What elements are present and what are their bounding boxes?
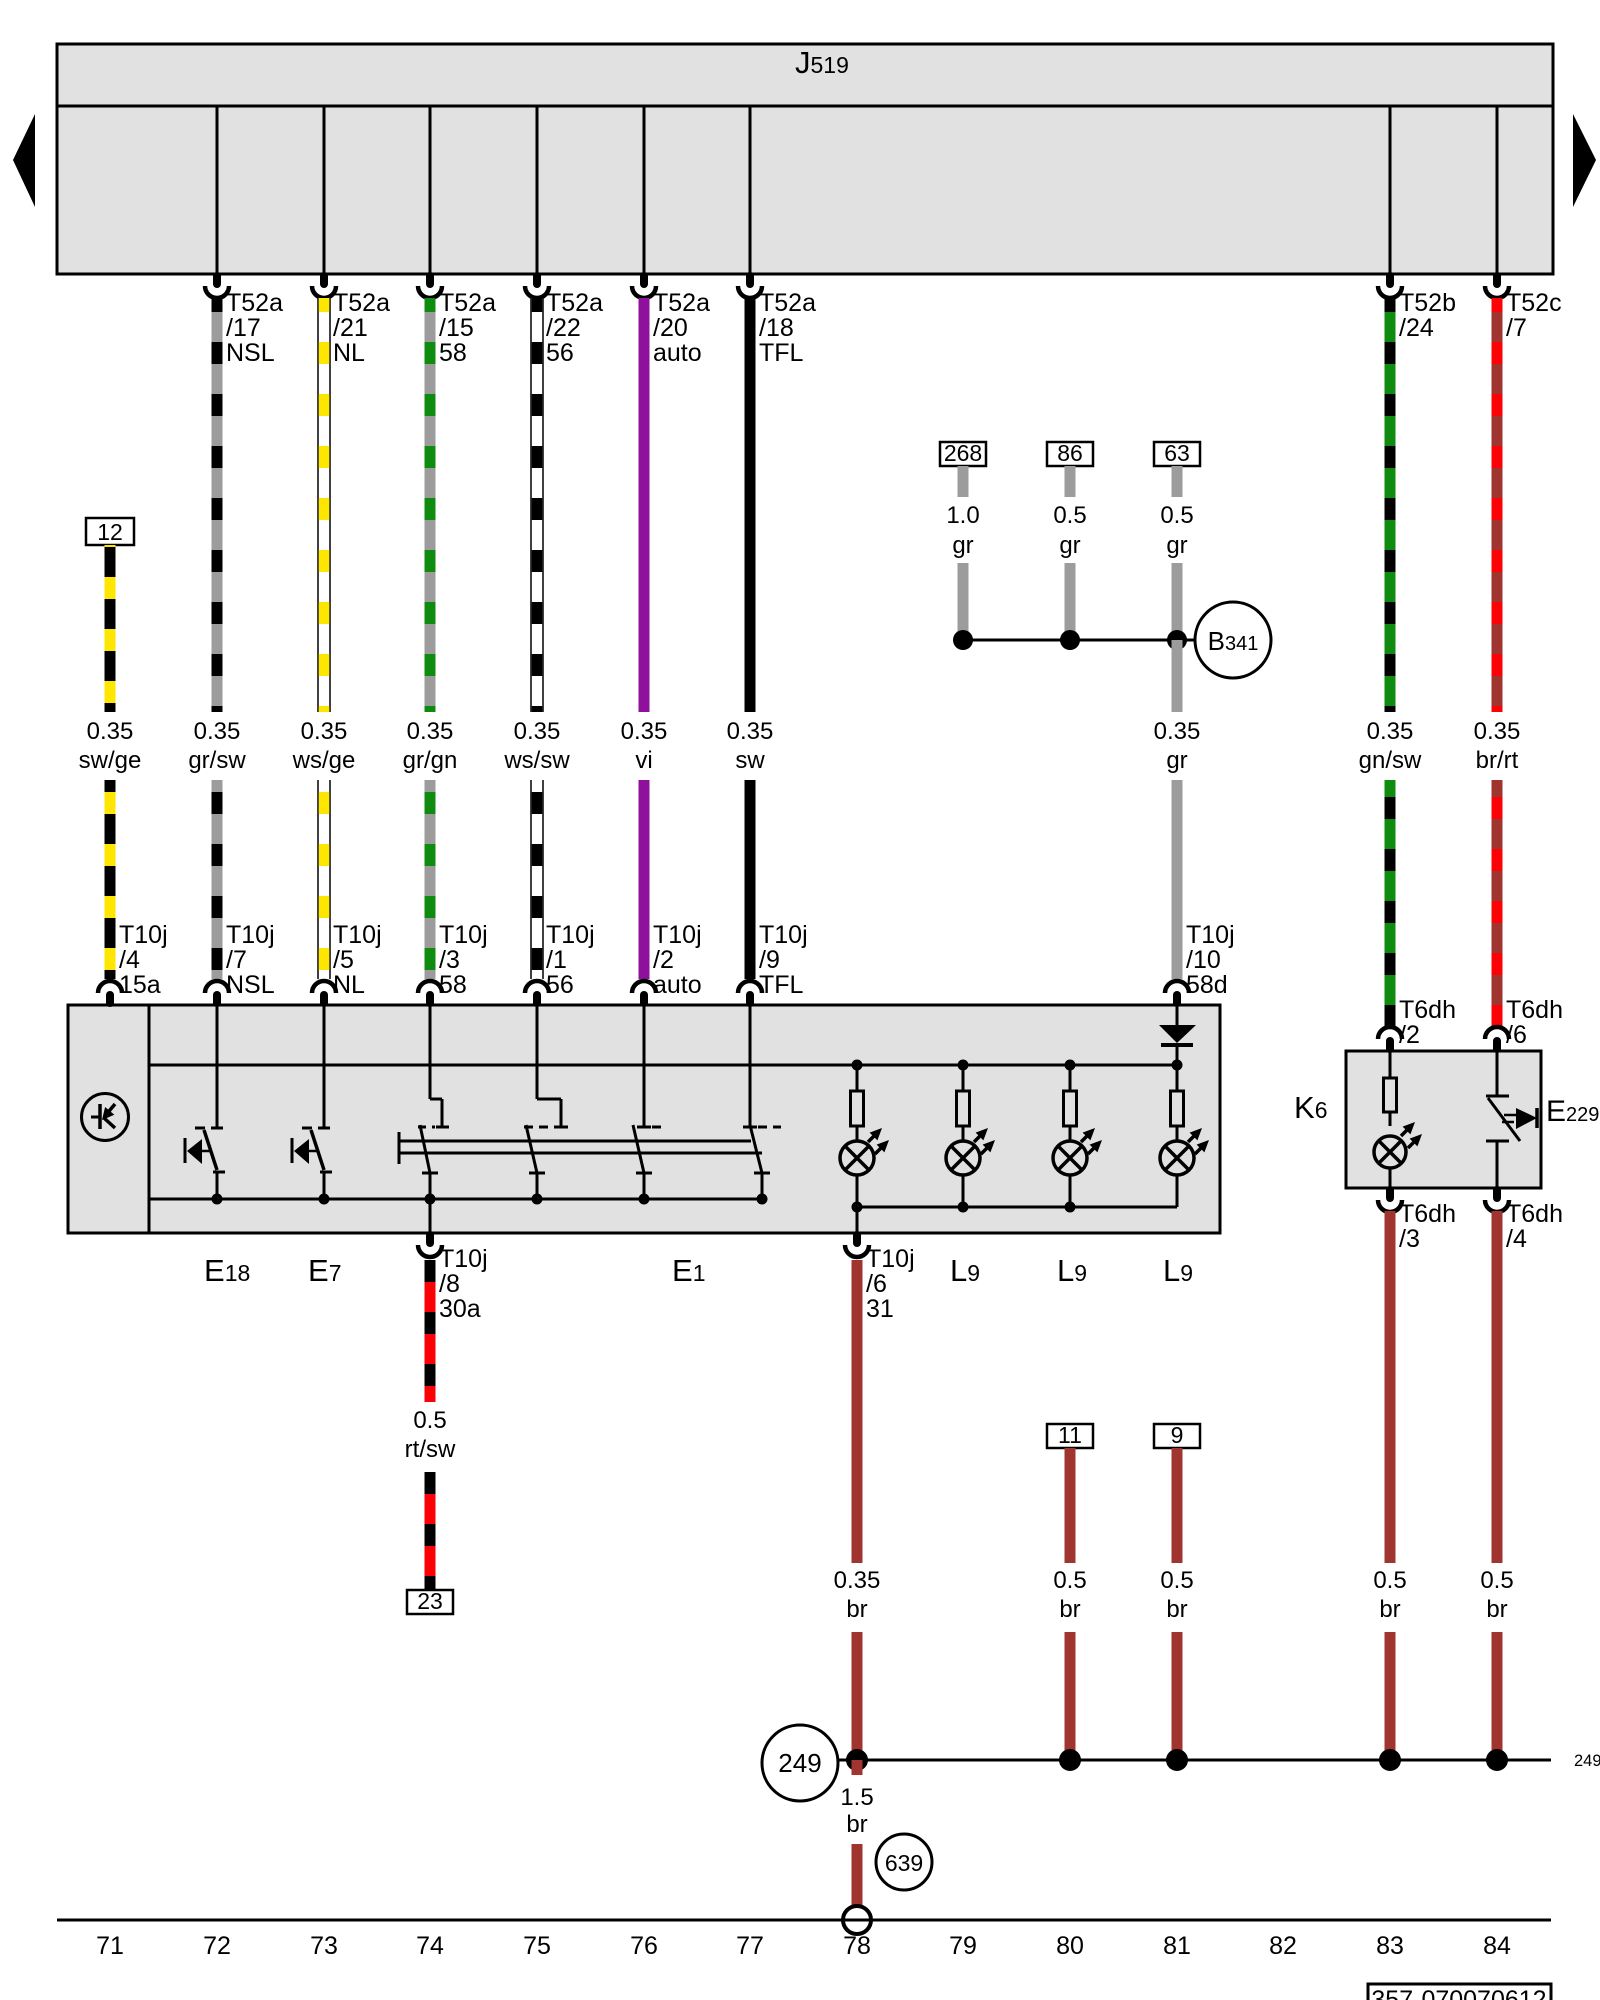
svg-text:gr/gn: gr/gn — [403, 747, 458, 774]
wire label 0.5 br track 80 — [1053, 1567, 1086, 1623]
wire br segment to ground node track 81 — [1172, 1632, 1183, 1760]
wire br segment to ground node track 80 — [1065, 1632, 1076, 1760]
terminal box 11 — [1047, 1422, 1093, 1448]
svg-text:1.0: 1.0 — [946, 502, 979, 529]
svg-text:30a: 30a — [439, 1295, 481, 1323]
connector pin T6dh/6 — [1485, 1027, 1509, 1049]
svg-text:81: 81 — [1163, 1932, 1191, 1960]
wire ws/ge upper segment track 73 — [317, 298, 331, 712]
wire br segment to ground node track 84 — [1492, 1632, 1503, 1760]
ground wire callout 639 — [876, 1834, 932, 1890]
svg-text:0.5: 0.5 — [1053, 502, 1086, 529]
svg-text:72: 72 — [203, 1932, 231, 1960]
svg-text:br: br — [1379, 1596, 1400, 1623]
label L9 — [1163, 1253, 1193, 1288]
wire label 0.35 sw track 77 — [727, 718, 774, 774]
svg-text:0.35: 0.35 — [834, 1567, 881, 1594]
track number 80 — [1056, 1932, 1084, 1960]
junction on ground line — [1379, 1749, 1401, 1771]
wire label 0.35 ws/sw track 75 — [503, 718, 570, 774]
svg-text:79: 79 — [949, 1932, 977, 1960]
svg-text:T6dh: T6dh — [1399, 1200, 1456, 1228]
terminal box 63 — [1154, 440, 1200, 466]
pin label T10j /6 31 — [866, 1245, 915, 1323]
junction diode to bus — [1172, 1060, 1183, 1071]
svg-text:63: 63 — [1164, 440, 1190, 466]
svg-text:T10j: T10j — [546, 921, 595, 949]
control unit J519 box — [57, 44, 1553, 274]
lamp L9 2 — [946, 1128, 995, 1175]
svg-text:/17: /17 — [226, 314, 261, 342]
svg-text:31: 31 — [866, 1295, 894, 1323]
J519 internal pin lead track 77 — [749, 106, 752, 274]
junction on common bus — [639, 1194, 650, 1205]
continuation arrow right — [1573, 114, 1596, 207]
J519 internal pin lead track 83 — [1389, 106, 1392, 274]
svg-text:23: 23 — [417, 1588, 443, 1614]
label J519 — [795, 45, 849, 80]
svg-text:/9: /9 — [759, 946, 780, 974]
track number 81 — [1163, 1932, 1191, 1960]
pin label T10j /3 58 — [439, 921, 488, 999]
wire br segment below K6 track 84 — [1492, 1211, 1503, 1563]
svg-text:58: 58 — [439, 339, 467, 367]
wire vi lower segment track 76 — [639, 780, 650, 979]
lamp lead — [1069, 1175, 1072, 1207]
pin label T52a /17 — [226, 289, 283, 367]
svg-text:/6: /6 — [866, 1270, 887, 1298]
junction on lamp bus — [852, 1202, 863, 1213]
svg-text:58d: 58d — [1186, 971, 1228, 999]
svg-text:0.35: 0.35 — [621, 718, 668, 745]
pin label T6dh /6 — [1506, 996, 1563, 1049]
wire gr/gn upper segment track 74 — [425, 298, 436, 712]
terminal box 268 — [940, 440, 986, 466]
K6 lamp branch — [1384, 1051, 1397, 1126]
wire br segment below T10j/6 — [852, 1260, 863, 1563]
svg-text:T10j: T10j — [226, 921, 275, 949]
label E7 — [308, 1253, 341, 1288]
svg-text:76: 76 — [630, 1932, 658, 1960]
svg-text:rt/sw: rt/sw — [405, 1436, 456, 1463]
connector pin T52a/17 at J519 — [205, 276, 229, 298]
switch E1 gang 2 — [524, 1005, 568, 1199]
svg-text:/10: /10 — [1186, 946, 1221, 974]
wire label 0.35 gr track 81 — [1154, 718, 1201, 774]
svg-text:78: 78 — [843, 1932, 871, 1960]
svg-text:/6: /6 — [1506, 1021, 1527, 1049]
svg-text:T52a: T52a — [759, 289, 816, 317]
rotary light switch symbol — [82, 1094, 129, 1141]
svg-text:NSL: NSL — [226, 339, 275, 367]
svg-text:gr: gr — [1166, 532, 1187, 559]
connector pin T52a/21 at J519 — [312, 276, 336, 298]
wire label 0.5 br track 83 — [1373, 1567, 1406, 1623]
svg-text:gr: gr — [1059, 532, 1080, 559]
wire gr segment below B341 node — [1172, 640, 1183, 712]
svg-text:br: br — [846, 1811, 867, 1838]
pin label T10j /2 auto — [653, 921, 702, 999]
lamp L9 1 — [840, 1128, 889, 1175]
svg-text:gr: gr — [1166, 747, 1187, 774]
connector pin T10j/10 at switch unit — [1165, 981, 1189, 1003]
svg-text:74: 74 — [416, 1932, 444, 1960]
connector pin T10j/7 at switch unit — [205, 981, 229, 1003]
svg-text:15a: 15a — [119, 971, 161, 999]
internal common bus wire — [149, 1198, 762, 1201]
track number 84 — [1483, 1932, 1511, 1960]
svg-text:T52c: T52c — [1506, 289, 1562, 317]
svg-text:/3: /3 — [439, 946, 460, 974]
wire label 0.35 br track 78 — [834, 1567, 881, 1623]
wire gr segment track 81 — [1172, 563, 1183, 640]
wire gr segment track 79 — [958, 563, 969, 640]
wire label 0.35 sw/ge track 71 — [79, 718, 142, 774]
wire label 0.35 vi track 76 — [621, 718, 668, 774]
svg-text:12: 12 — [97, 519, 123, 545]
lamp L9 4 — [1160, 1128, 1209, 1175]
illumination lamp L9 branch 3 — [1064, 1065, 1077, 1141]
connector pin T52a/20 at J519 — [632, 276, 656, 298]
lamp L9 3 — [1053, 1128, 1102, 1175]
svg-text:gr: gr — [952, 532, 973, 559]
svg-text:268: 268 — [944, 440, 982, 466]
svg-text:TFL: TFL — [759, 971, 804, 999]
track number 72 — [203, 1932, 231, 1960]
junction on lamp bus — [958, 1202, 969, 1213]
pin label T10j /9 TFL — [759, 921, 808, 999]
label E18 — [204, 1253, 250, 1288]
svg-text:E7: E7 — [308, 1253, 341, 1288]
lamp lead — [962, 1175, 965, 1207]
connector pin T52b/24 at J519 — [1378, 276, 1402, 298]
svg-text:/3: /3 — [1399, 1225, 1420, 1253]
wire rt/sw segment below T10j/8 — [425, 1260, 436, 1402]
wire gn/sw lower segment track 83 — [1385, 780, 1396, 1027]
indicator lamp K6 — [1374, 1122, 1422, 1168]
svg-text:/4: /4 — [1506, 1225, 1527, 1253]
diode on 58d feed — [1159, 1005, 1196, 1065]
svg-text:br: br — [1486, 1596, 1507, 1623]
wire gr segment track 80 — [1065, 563, 1076, 640]
connector pin T10j/5 at switch unit — [312, 981, 336, 1003]
svg-text:gn/sw: gn/sw — [1359, 747, 1422, 774]
connector pin T52c/7 at J519 — [1485, 276, 1509, 298]
wire br segment to earth point — [852, 1844, 863, 1908]
wire label 0.5 gr track 81 — [1160, 502, 1193, 559]
track number 71 — [96, 1932, 124, 1960]
junction on ground line — [1166, 1749, 1188, 1771]
svg-text:58: 58 — [439, 971, 467, 999]
pin label T52a /18 — [759, 289, 816, 367]
svg-text:11: 11 — [1058, 1422, 1082, 1448]
junction — [953, 630, 973, 650]
illumination lamp L9 branch 2 — [957, 1065, 970, 1141]
junction on common bus — [212, 1194, 223, 1205]
svg-text:T6dh: T6dh — [1399, 996, 1456, 1024]
label 249 right — [1574, 1752, 1600, 1770]
wire label 0.5 br track 84 — [1480, 1567, 1513, 1623]
svg-text:/22: /22 — [546, 314, 581, 342]
wire sw/ge lower segment track 71 — [105, 780, 116, 979]
svg-text:86: 86 — [1057, 440, 1083, 466]
svg-text:/2: /2 — [1399, 1021, 1420, 1049]
svg-text:br/rt: br/rt — [1476, 747, 1519, 774]
J519 internal pin lead track 73 — [323, 106, 326, 274]
connector pin T6dh/2 — [1378, 1027, 1402, 1049]
track number 79 — [949, 1932, 977, 1960]
wire gr stub below box 63 — [1172, 466, 1183, 497]
svg-text:T10j: T10j — [439, 921, 488, 949]
svg-text:/21: /21 — [333, 314, 368, 342]
track base line — [57, 1919, 1551, 1922]
svg-text:ws/sw: ws/sw — [503, 747, 570, 774]
svg-text:639: 639 — [885, 1850, 923, 1876]
svg-text:80: 80 — [1056, 1932, 1084, 1960]
connector pin T10j/4 at switch unit — [98, 981, 122, 1003]
svg-text:T6dh: T6dh — [1506, 1200, 1563, 1228]
junction on lamp bus — [1065, 1202, 1076, 1213]
svg-text:K6: K6 — [1294, 1090, 1327, 1125]
wire br/rt lower segment track 84 — [1492, 780, 1503, 1027]
switch E1 gang 4 — [743, 1005, 781, 1199]
label K6 — [1294, 1090, 1327, 1125]
junction on supply bus — [852, 1060, 863, 1071]
svg-text:/1: /1 — [546, 946, 567, 974]
label E229 — [1546, 1095, 1599, 1128]
svg-text:sw/ge: sw/ge — [79, 747, 142, 774]
svg-text:0.35: 0.35 — [514, 718, 561, 745]
wire label 1.5 br — [840, 1784, 873, 1838]
J519 internal pin lead track 75 — [536, 106, 539, 274]
svg-text:249: 249 — [778, 1748, 821, 1778]
wire br/rt upper segment track 84 — [1492, 298, 1503, 712]
svg-text:T52a: T52a — [546, 289, 603, 317]
wire vi upper segment track 76 — [639, 298, 650, 712]
connector pin T10j/9 at switch unit — [738, 981, 762, 1003]
wire gr/gn lower segment track 74 — [425, 780, 436, 979]
junction on ground line — [1486, 1749, 1508, 1771]
svg-text:357-070070612: 357-070070612 — [1371, 1986, 1546, 2000]
wire ws/ge lower segment track 73 — [317, 780, 331, 979]
svg-text:0.5: 0.5 — [413, 1407, 446, 1434]
svg-text:T52a: T52a — [653, 289, 710, 317]
wire label 1.0 gr track 79 — [946, 502, 979, 559]
svg-text:0.5: 0.5 — [1053, 1567, 1086, 1594]
svg-text:br: br — [1059, 1596, 1080, 1623]
pin label T52b /24 — [1399, 289, 1456, 342]
wire label 0.35 br/rt track 84 — [1474, 718, 1521, 774]
wire ws/sw upper segment track 75 — [530, 298, 544, 712]
wire ws/sw lower segment track 75 — [530, 780, 544, 979]
connector pin T52a/15 at J519 — [418, 276, 442, 298]
diagram number box 357-070070612 — [1368, 1984, 1551, 2000]
svg-text:82: 82 — [1269, 1932, 1297, 1960]
svg-text:71: 71 — [96, 1932, 124, 1960]
wire label 0.5 br track 81 — [1160, 1567, 1193, 1623]
sensor B341 callout circle — [1195, 602, 1271, 678]
svg-text:/7: /7 — [226, 946, 247, 974]
pin label T52a /22 — [546, 289, 603, 367]
svg-text:/7: /7 — [1506, 314, 1527, 342]
ground point callout 249 — [762, 1725, 838, 1801]
svg-text:75: 75 — [523, 1932, 551, 1960]
svg-text:sw: sw — [735, 747, 765, 774]
pin label T6dh /2 — [1399, 996, 1456, 1049]
svg-text:0.5: 0.5 — [1160, 502, 1193, 529]
track number 76 — [630, 1932, 658, 1960]
svg-text:ws/ge: ws/ge — [292, 747, 356, 774]
svg-text:T52a: T52a — [333, 289, 390, 317]
svg-text:br: br — [846, 1596, 867, 1623]
wire label 0.35 ws/ge track 73 — [292, 718, 356, 774]
svg-text:T10j: T10j — [119, 921, 168, 949]
svg-text:T52a: T52a — [226, 289, 283, 317]
internal supply bus wire — [149, 1064, 1177, 1067]
node line to B341 — [963, 639, 1195, 642]
connector pin T52a/18 at J519 — [738, 276, 762, 298]
connector pin T10j/2 at switch unit — [632, 981, 656, 1003]
connector pin T6dh/4 — [1485, 1190, 1509, 1212]
svg-text:T10j: T10j — [333, 921, 382, 949]
wire rt/sw segment to terminal 23 — [425, 1472, 436, 1590]
svg-text:/18: /18 — [759, 314, 794, 342]
svg-text:E18: E18 — [204, 1253, 250, 1288]
wire br stub below box 11 — [1065, 1448, 1076, 1563]
label L9 — [950, 1253, 980, 1288]
svg-text:L9: L9 — [950, 1253, 980, 1288]
svg-text:NSL: NSL — [226, 971, 275, 999]
svg-text:56: 56 — [546, 339, 574, 367]
pin label T10j /10 58d — [1186, 921, 1235, 999]
junction on common bus — [425, 1194, 436, 1205]
connector pin T10j/1 at switch unit — [525, 981, 549, 1003]
svg-text:0.35: 0.35 — [1154, 718, 1201, 745]
switch E229 branch — [1486, 1051, 1537, 1188]
track number 74 — [416, 1932, 444, 1960]
svg-text:/8: /8 — [439, 1270, 460, 1298]
svg-text:T52b: T52b — [1399, 289, 1456, 317]
switch unit box E1/E18/E7/L9 — [68, 1005, 1220, 1233]
switch E18 — [185, 1005, 225, 1199]
svg-text:77: 77 — [736, 1932, 764, 1960]
earth point symbol — [843, 1906, 871, 1934]
track number 83 — [1376, 1932, 1404, 1960]
svg-text:E1: E1 — [672, 1253, 705, 1288]
pin label T10j /7 NSL — [226, 921, 275, 999]
connector pin T10j/3 at switch unit — [418, 981, 442, 1003]
svg-text:0.35: 0.35 — [1367, 718, 1414, 745]
label E1 — [672, 1253, 705, 1288]
wire gr stub below box 86 — [1065, 466, 1076, 497]
svg-text:0.35: 0.35 — [301, 718, 348, 745]
lamp bus exit lead — [856, 1207, 859, 1233]
svg-text:T10j: T10j — [653, 921, 702, 949]
svg-text:E229: E229 — [1546, 1095, 1599, 1128]
terminal box 23 — [407, 1588, 453, 1614]
svg-text:73: 73 — [310, 1932, 338, 1960]
svg-text:TFL: TFL — [759, 339, 804, 367]
svg-text:B341: B341 — [1208, 626, 1259, 656]
pin label T10j /5 NL — [333, 921, 382, 999]
J519 internal pin lead track 72 — [216, 106, 219, 274]
wire gr/sw upper segment track 72 — [212, 298, 223, 712]
junction on common bus — [319, 1194, 330, 1205]
pin label T6dh /3 — [1399, 1200, 1456, 1253]
pin label T6dh /4 — [1506, 1200, 1563, 1253]
svg-text:0.35: 0.35 — [194, 718, 241, 745]
svg-text:9: 9 — [1171, 1422, 1184, 1448]
J519 internal pin lead track 84 — [1496, 106, 1499, 274]
svg-text:/15: /15 — [439, 314, 474, 342]
wire br segment below K6 track 83 — [1385, 1211, 1396, 1563]
wire label 0.5 gr track 80 — [1053, 502, 1086, 559]
wire label 0.5 rt/sw — [405, 1407, 456, 1463]
pin label T52a /21 — [333, 289, 390, 367]
svg-text:L9: L9 — [1057, 1253, 1087, 1288]
svg-text:NL: NL — [333, 971, 365, 999]
wire br segment to ground node track 78 — [852, 1632, 863, 1760]
wire sw lower segment track 77 — [745, 780, 756, 979]
svg-text:249: 249 — [1574, 1752, 1600, 1770]
svg-text:br: br — [1166, 1596, 1187, 1623]
label L9 — [1057, 1253, 1087, 1288]
J519 internal pin lead track 74 — [429, 106, 432, 274]
illumination lamp L9 branch 1 — [851, 1065, 864, 1141]
terminal box 86 — [1047, 440, 1093, 466]
pin label T52a /15 — [439, 289, 496, 367]
svg-text:T10j: T10j — [759, 921, 808, 949]
wire label 0.35 gr/gn track 74 — [403, 718, 458, 774]
junction on ground line — [846, 1749, 868, 1771]
wire br stub below box 9 — [1172, 1448, 1183, 1563]
pin label T10j /1 56 — [546, 921, 595, 999]
pin label T10j /8 30a — [439, 1245, 488, 1323]
switch E7 — [292, 1005, 332, 1199]
junction on supply bus — [958, 1060, 969, 1071]
svg-text:/4: /4 — [119, 946, 140, 974]
track number 78 — [843, 1932, 871, 1960]
junction on common bus — [757, 1194, 768, 1205]
junction — [1167, 630, 1187, 650]
svg-text:0.35: 0.35 — [1474, 718, 1521, 745]
terminal box 9 — [1154, 1422, 1200, 1448]
junction on ground line — [1059, 1749, 1081, 1771]
svg-text:T52a: T52a — [439, 289, 496, 317]
fuse box 12 — [86, 518, 134, 545]
svg-text:NL: NL — [333, 339, 365, 367]
svg-text:gr/sw: gr/sw — [188, 747, 246, 774]
svg-text:vi: vi — [635, 747, 652, 774]
switch E1 gang 3 — [633, 1005, 664, 1199]
svg-text:L9: L9 — [1163, 1253, 1193, 1288]
svg-text:0.5: 0.5 — [1373, 1567, 1406, 1594]
wire gr lower segment track 81 — [1172, 780, 1183, 979]
svg-text:/2: /2 — [653, 946, 674, 974]
svg-text:83: 83 — [1376, 1932, 1404, 1960]
wire gr stub below box 268 — [958, 466, 969, 497]
wire gr/sw lower segment track 72 — [212, 780, 223, 979]
illumination lamp L9 branch 4 — [1171, 1065, 1184, 1141]
svg-text:T6dh: T6dh — [1506, 996, 1563, 1024]
wire gn/sw upper segment track 83 — [1385, 298, 1396, 712]
K6 lamp lead — [1389, 1168, 1392, 1188]
svg-text:/20: /20 — [653, 314, 688, 342]
wire br stub below node — [852, 1760, 863, 1775]
svg-text:T10j: T10j — [1186, 921, 1235, 949]
junction on common bus — [532, 1194, 543, 1205]
track number 77 — [736, 1932, 764, 1960]
